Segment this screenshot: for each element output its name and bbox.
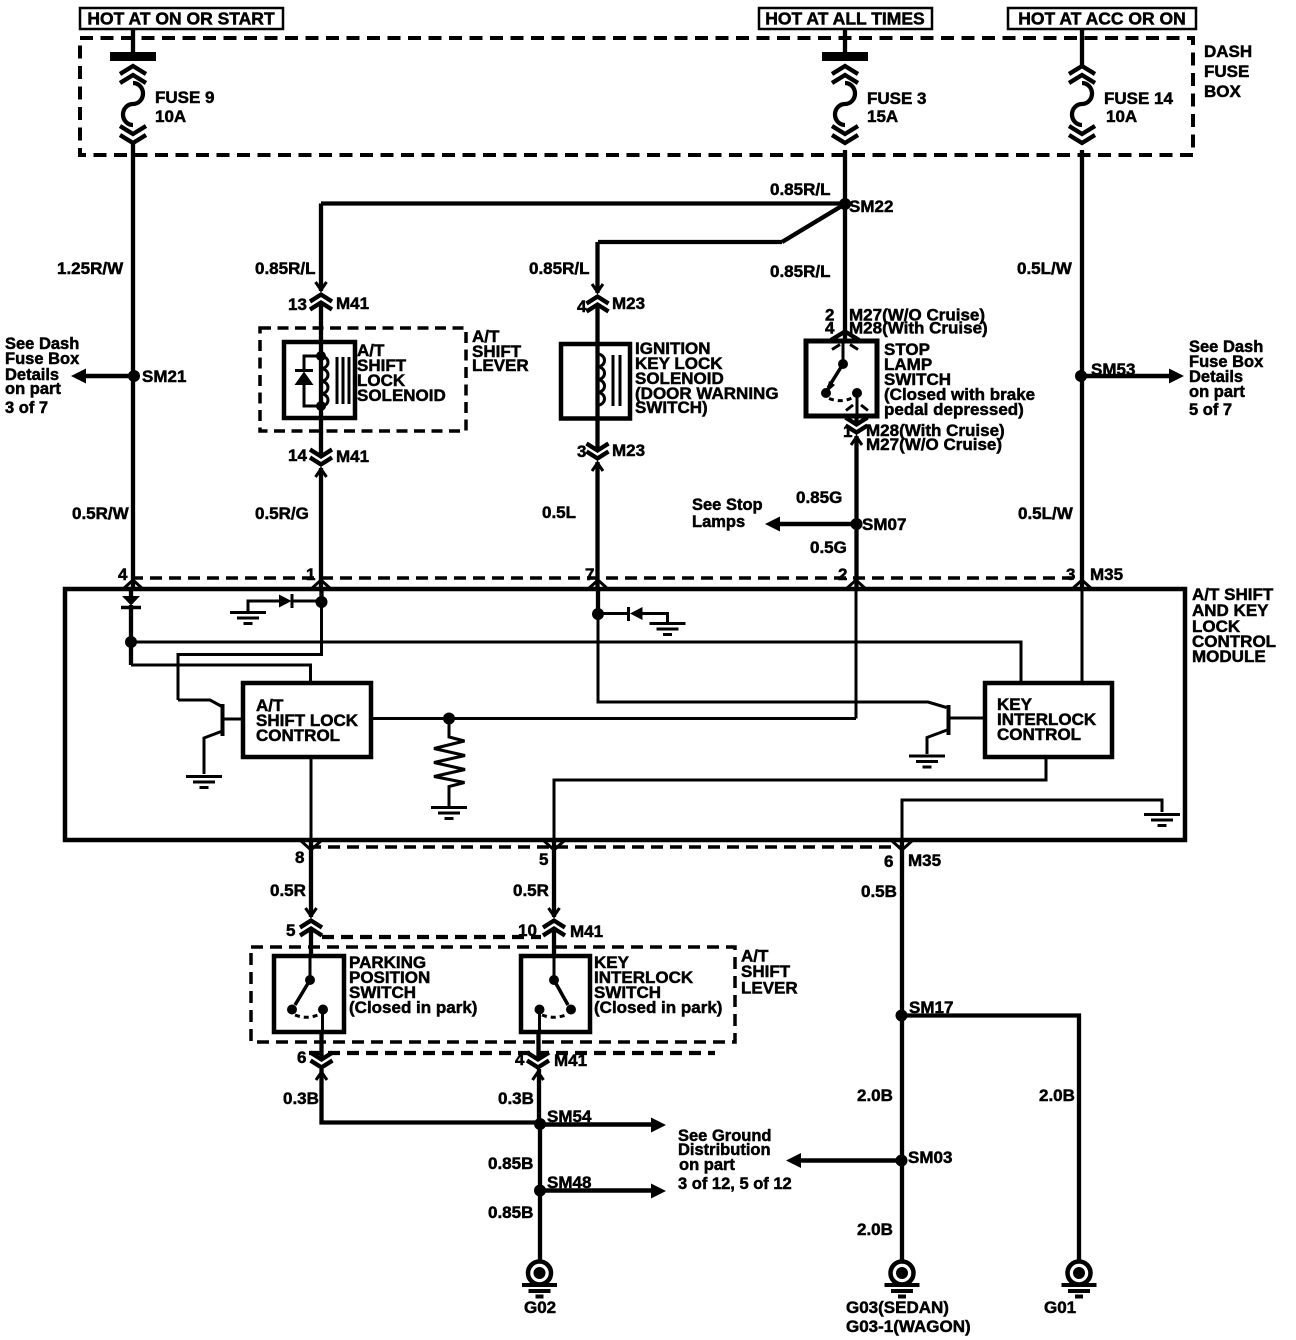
svg-text:10A: 10A — [1106, 107, 1137, 126]
svg-text:4: 4 — [515, 1050, 525, 1069]
svg-text:2.0B: 2.0B — [1039, 1086, 1075, 1105]
svg-text:FUSE 9: FUSE 9 — [155, 88, 215, 107]
svg-text:MODULE: MODULE — [1192, 647, 1266, 666]
svg-text:LEVER: LEVER — [741, 979, 798, 998]
svg-text:0.5R/W: 0.5R/W — [72, 504, 130, 523]
svg-text:4: 4 — [825, 319, 835, 338]
svg-text:SOLENOID: SOLENOID — [357, 386, 446, 405]
svg-text:7: 7 — [585, 565, 594, 584]
svg-text:5: 5 — [539, 850, 548, 869]
svg-text:M41: M41 — [336, 294, 369, 313]
svg-text:3: 3 — [1066, 565, 1075, 584]
svg-text:SM07: SM07 — [862, 515, 906, 534]
svg-text:CONTROL: CONTROL — [256, 726, 340, 745]
svg-text:SM48: SM48 — [547, 1173, 591, 1192]
svg-text:6: 6 — [884, 852, 893, 871]
svg-text:SM03: SM03 — [908, 1148, 952, 1167]
svg-text:BOX: BOX — [1204, 82, 1242, 101]
svg-text:HOT AT ACC OR ON: HOT AT ACC OR ON — [1018, 9, 1186, 29]
svg-text:2.0B: 2.0B — [857, 1086, 893, 1105]
svg-text:CONTROL: CONTROL — [997, 725, 1081, 744]
svg-text:M41: M41 — [336, 447, 369, 466]
svg-text:2: 2 — [838, 565, 847, 584]
svg-text:14: 14 — [288, 446, 307, 465]
svg-text:0.3B: 0.3B — [498, 1089, 534, 1108]
svg-text:G03-1(WAGON): G03-1(WAGON) — [846, 1317, 971, 1336]
svg-text:0.5R/G: 0.5R/G — [255, 504, 309, 523]
svg-text:M41: M41 — [570, 922, 603, 941]
svg-text:SM54: SM54 — [547, 1107, 592, 1126]
svg-text:0.5L: 0.5L — [542, 503, 576, 522]
svg-text:HOT AT ON OR START: HOT AT ON OR START — [87, 9, 275, 29]
svg-text:on part: on part — [679, 1156, 735, 1174]
svg-text:0.85B: 0.85B — [488, 1203, 533, 1222]
svg-text:0.85G: 0.85G — [796, 488, 842, 507]
svg-text:HOT AT ALL TIMES: HOT AT ALL TIMES — [765, 9, 924, 29]
svg-text:15A: 15A — [867, 107, 898, 126]
svg-text:M41: M41 — [554, 1051, 587, 1070]
svg-text:G02: G02 — [524, 1298, 556, 1317]
svg-text:3 of 7: 3 of 7 — [5, 399, 48, 417]
svg-text:4: 4 — [577, 297, 587, 316]
svg-text:M23: M23 — [612, 294, 645, 313]
svg-text:0.5L/W: 0.5L/W — [1018, 504, 1074, 523]
svg-text:FUSE: FUSE — [1204, 62, 1249, 81]
svg-text:8: 8 — [295, 848, 304, 867]
svg-text:on part: on part — [5, 380, 61, 398]
svg-text:pedal depressed): pedal depressed) — [884, 400, 1024, 419]
svg-text:M35: M35 — [908, 851, 941, 870]
svg-text:5 of 7: 5 of 7 — [1189, 401, 1232, 419]
svg-text:LEVER: LEVER — [472, 356, 529, 375]
svg-text:6: 6 — [297, 1048, 306, 1067]
svg-text:FUSE 14: FUSE 14 — [1104, 89, 1174, 108]
svg-text:0.85B: 0.85B — [488, 1154, 533, 1173]
svg-text:10A: 10A — [155, 107, 186, 126]
svg-text:See Stop: See Stop — [692, 496, 763, 514]
svg-text:3: 3 — [577, 442, 586, 461]
svg-text:0.5G: 0.5G — [810, 538, 847, 557]
svg-text:1.25R/W: 1.25R/W — [57, 259, 124, 278]
svg-text:0.5R: 0.5R — [270, 881, 306, 900]
svg-text:0.85R/L: 0.85R/L — [770, 180, 830, 199]
svg-text:0.85R/L: 0.85R/L — [770, 262, 830, 281]
svg-text:on part: on part — [1189, 383, 1245, 401]
svg-text:(Closed in park): (Closed in park) — [349, 998, 477, 1017]
svg-text:M27(W/O Cruise): M27(W/O Cruise) — [866, 435, 1002, 454]
svg-text:FUSE 3: FUSE 3 — [867, 89, 927, 108]
svg-text:4: 4 — [118, 565, 128, 584]
svg-text:0.85R/L: 0.85R/L — [529, 259, 589, 278]
svg-text:1: 1 — [306, 565, 315, 584]
svg-text:DASH: DASH — [1204, 42, 1252, 61]
svg-text:G01: G01 — [1044, 1298, 1076, 1317]
svg-text:SM53: SM53 — [1091, 360, 1135, 379]
svg-text:G03(SEDAN): G03(SEDAN) — [846, 1298, 949, 1317]
svg-text:0.3B: 0.3B — [283, 1089, 319, 1108]
svg-text:M28(With Cruise): M28(With Cruise) — [849, 319, 988, 338]
svg-text:3 of 12, 5 of 12: 3 of 12, 5 of 12 — [678, 1175, 792, 1193]
svg-text:5: 5 — [286, 921, 295, 940]
svg-text:Lamps: Lamps — [692, 513, 745, 531]
svg-text:0.5B: 0.5B — [861, 882, 897, 901]
svg-text:13: 13 — [288, 295, 307, 314]
svg-text:SWITCH): SWITCH) — [635, 398, 708, 417]
svg-text:(Closed in park): (Closed in park) — [594, 998, 722, 1017]
svg-text:M35: M35 — [1090, 565, 1123, 584]
svg-text:M23: M23 — [612, 441, 645, 460]
svg-text:SM21: SM21 — [142, 367, 186, 386]
svg-text:0.5R: 0.5R — [513, 881, 549, 900]
svg-text:2.0B: 2.0B — [857, 1220, 893, 1239]
svg-text:0.85R/L: 0.85R/L — [255, 259, 315, 278]
svg-text:SM22: SM22 — [849, 197, 893, 216]
svg-text:0.5L/W: 0.5L/W — [1017, 259, 1073, 278]
